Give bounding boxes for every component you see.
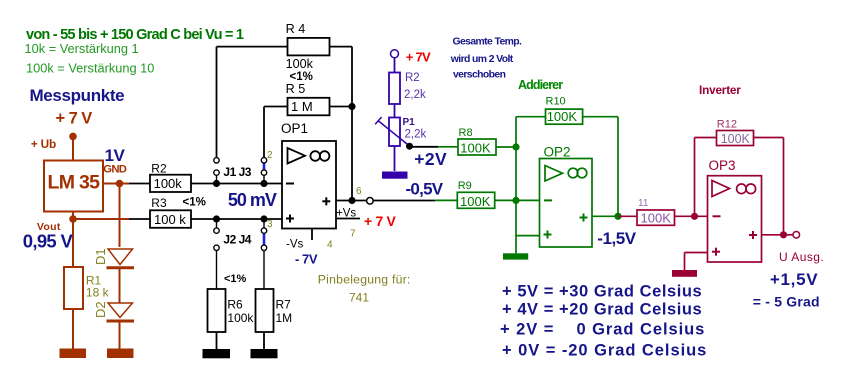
svg-text:3: 3 [267,219,273,230]
svg-text:<1%: <1% [183,197,206,209]
svg-text:7: 7 [350,229,356,240]
svg-text:6: 6 [356,186,362,197]
svg-text:741: 741 [349,291,369,305]
svg-text:2,2k: 2,2k [405,129,427,141]
svg-text:100k = Verstärkung 10: 100k = Verstärkung 10 [26,60,154,75]
svg-text:+ 2V = 0 Grad Celsius: + 2V = 0 Grad Celsius [500,321,705,339]
svg-text:100k: 100k [286,57,314,71]
svg-text:2,2k: 2,2k [404,89,426,101]
svg-text:GND: GND [103,164,126,176]
svg-text:100K: 100K [460,140,491,155]
svg-text:10k = Verstärkung 1: 10k = Verstärkung 1 [25,41,139,56]
svg-text:+ Ub: + Ub [31,137,56,151]
svg-text:Gesamte Temp.: Gesamte Temp. [453,37,523,48]
svg-text:R3: R3 [151,196,167,210]
svg-text:OP3: OP3 [709,158,736,173]
svg-text:+ 7 V: + 7 V [364,213,397,229]
svg-text:100K: 100K [721,132,751,146]
svg-text:100K: 100K [547,109,578,124]
svg-text:LM 35: LM 35 [48,172,101,194]
svg-text:R2: R2 [405,72,420,84]
svg-text:100k: 100k [154,176,183,191]
svg-text:-0,5V: -0,5V [406,179,444,198]
svg-text:R6: R6 [227,298,243,312]
svg-text:wird um 2 Volt: wird um 2 Volt [450,54,514,65]
svg-text:R2: R2 [151,161,167,175]
svg-text:J1 J3: J1 J3 [223,165,251,179]
svg-text:R7: R7 [276,298,292,312]
svg-text:+ 4V = +20 Grad Celsius: + 4V = +20 Grad Celsius [502,301,702,319]
svg-text:+1,5V: +1,5V [770,270,818,289]
svg-text:R12: R12 [717,118,737,130]
svg-text:<1%: <1% [224,273,247,285]
svg-text:- 7V: - 7V [295,252,318,267]
svg-text:4: 4 [327,240,333,251]
svg-text:-Vs: -Vs [286,239,304,251]
svg-text:100K: 100K [460,194,491,209]
svg-text:P1: P1 [403,117,416,128]
svg-text:R 4: R 4 [286,22,306,36]
svg-text:50 mV: 50 mV [228,190,277,210]
svg-text:+ 5V = +30 Grad Celsius: + 5V = +30 Grad Celsius [502,283,702,301]
svg-text:2: 2 [267,150,273,161]
svg-text:Pinbelegung für:: Pinbelegung für: [318,273,411,287]
svg-text:verschoben: verschoben [453,69,506,80]
svg-text:0,95 V: 0,95 V [23,231,74,252]
svg-text:100K: 100K [641,210,672,225]
svg-text:D2: D2 [93,301,108,318]
svg-text:+Vs: +Vs [336,208,356,220]
svg-text:+ 0V = -20 Grad Celsius: + 0V = -20 Grad Celsius [502,342,707,360]
svg-text:1 M: 1 M [291,99,313,114]
svg-text:= - 5 Grad: = - 5 Grad [753,294,820,310]
svg-text:OP1: OP1 [281,121,308,136]
svg-text:100k: 100k [227,311,254,325]
svg-text:OP2: OP2 [544,145,571,160]
svg-text:11: 11 [638,198,649,209]
svg-text:1V: 1V [105,146,126,165]
svg-text:Messpunkte: Messpunkte [30,86,125,105]
svg-text:J2 J4: J2 J4 [223,233,251,247]
svg-text:R9: R9 [458,180,472,192]
svg-text:D1: D1 [93,248,108,265]
svg-text:+2V: +2V [414,149,447,169]
svg-text:+ 7 V: + 7 V [56,110,93,128]
svg-text:Addierer: Addierer [518,78,563,92]
svg-text:100 k: 100 k [154,212,186,227]
svg-text:R 5: R 5 [286,82,306,96]
svg-text:+ 7V: + 7V [406,49,431,64]
svg-text:R8: R8 [459,127,473,139]
svg-text:1M: 1M [276,311,293,325]
svg-text:18 k: 18 k [86,286,110,300]
svg-text:U Ausg.: U Ausg. [779,250,824,264]
svg-text:-1,5V: -1,5V [597,229,636,248]
svg-text:R10: R10 [546,96,566,108]
svg-text:Inverter: Inverter [699,83,741,97]
